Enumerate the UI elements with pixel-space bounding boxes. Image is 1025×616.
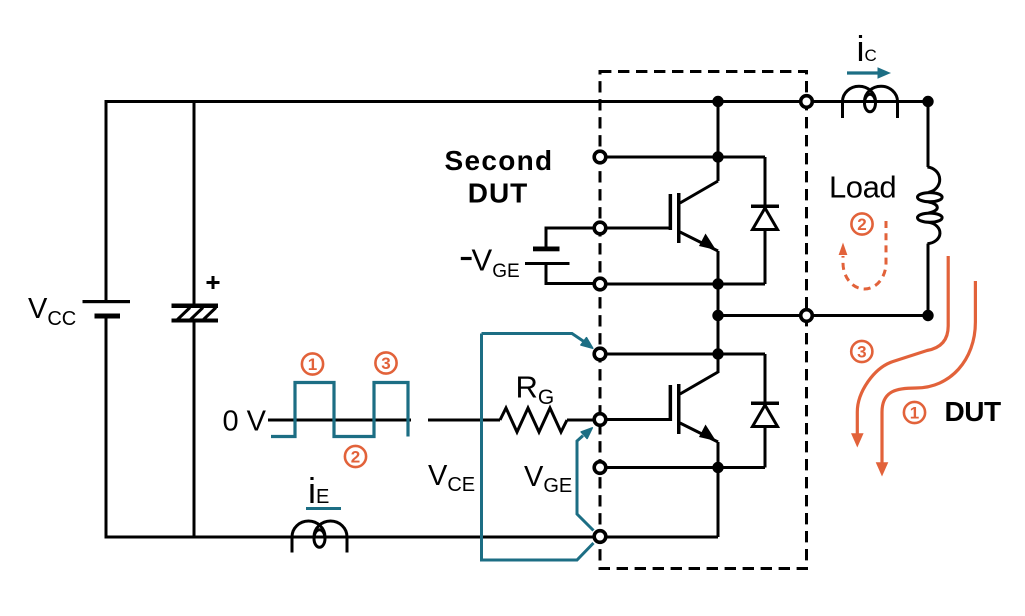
dashed DUT box: [600, 72, 807, 569]
orange dashed loop arrow 2: [843, 221, 886, 289]
wire mid rail: [718, 314, 928, 317]
svg-text:1: 1: [308, 355, 317, 374]
teal VGE measure line: [577, 436, 594, 531]
lower IGBT collector aux wire: [600, 353, 765, 356]
orange S arrow 3: [857, 256, 948, 434]
number 3 right: [851, 341, 872, 362]
terminal upper emitter: [594, 278, 606, 290]
node dot lower emitter: [712, 462, 723, 473]
number 2 left: [345, 446, 366, 467]
node dot upper collector aux: [712, 151, 723, 162]
teal VCE measure line: [482, 334, 594, 561]
capacitor C plate bottom: [172, 319, 219, 323]
lower IGBT emitter aux wire: [600, 466, 765, 469]
svg-text:2: 2: [857, 215, 866, 234]
teal VCE top run with arrow: [482, 334, 584, 342]
node dot top collector: [712, 96, 723, 107]
terminal lower collector: [594, 348, 606, 360]
node dot lower collector aux: [712, 348, 723, 359]
wave axis line left: [268, 419, 411, 422]
upper diode D1: [751, 157, 779, 284]
current transformer iC: [843, 86, 898, 118]
lower diode D2: [751, 354, 779, 468]
upper IGBT emitter aux wire: [600, 283, 765, 286]
capacitor C hatch: [178, 308, 217, 320]
wire capacitor branch upper: [193, 100, 196, 305]
number 3 left: [375, 352, 396, 373]
wire lower emitter to bottom: [717, 468, 720, 538]
svg-text:1: 1: [910, 404, 919, 423]
waveform gate pulses: [271, 383, 408, 437]
iE teal underline: [306, 507, 341, 510]
number 1 left: [302, 353, 323, 374]
load inductor: [918, 102, 943, 316]
capacitor C plate top: [172, 304, 219, 309]
wire resistor to gate terminal: [567, 419, 594, 422]
number 2 right: [851, 213, 872, 234]
battery VCC plate long: [83, 300, 131, 303]
wave axis line right to resistor: [428, 419, 500, 422]
terminal lower emitter aux: [594, 462, 606, 474]
battery -VGE plate long: [525, 262, 570, 265]
wire left rail upper: [105, 100, 108, 300]
terminal upper collector: [594, 151, 606, 163]
orange S arrow 1: [882, 281, 975, 463]
number 1 right: [904, 402, 925, 423]
svg-text:3: 3: [381, 354, 390, 373]
current transformer iE: [292, 521, 347, 553]
node dot upper emitter: [712, 278, 723, 289]
battery VCC plate short: [95, 314, 121, 319]
upper IGBT collector aux wire: [600, 156, 765, 159]
wire left rail lower: [105, 318, 108, 539]
wire -VGE battery top: [546, 228, 600, 247]
VGE arrowhead: [581, 428, 592, 439]
lower IGBT: [669, 372, 718, 468]
svg-text:DUT: DUT: [468, 178, 529, 209]
svg-text:2: 2: [351, 448, 360, 467]
node dot top right corner: [922, 96, 933, 107]
terminal lower gate: [594, 414, 606, 426]
wire capacitor branch lower: [193, 321, 196, 538]
svg-text:Second: Second: [445, 145, 554, 176]
svg-text:Load: Load: [829, 170, 896, 205]
upper IGBT gate wire: [600, 227, 670, 230]
terminal right top: [801, 96, 813, 108]
node dot mid right: [922, 310, 933, 321]
capacitor plus sign: [207, 276, 220, 289]
label -VGE: [461, 257, 472, 260]
terminal upper gate: [594, 222, 606, 234]
svg-text:DUT: DUT: [945, 396, 1001, 427]
svg-text:3: 3: [857, 343, 866, 362]
terminal power emitter: [594, 531, 606, 543]
lower IGBT gate wire: [594, 418, 670, 421]
upper IGBT: [669, 102, 718, 374]
resistor RG: [500, 408, 567, 432]
svg-text:0 V: 0 V: [223, 406, 267, 438]
VCE arrowhead: [581, 338, 593, 349]
iC teal arrow: [847, 71, 880, 74]
wire top rail: [106, 100, 928, 103]
battery -VGE plate short: [533, 247, 560, 252]
wire bottom rail: [105, 536, 719, 539]
terminal right mid: [801, 310, 813, 322]
wire -VGE battery bottom: [546, 265, 600, 284]
node dot mid: [712, 310, 723, 321]
